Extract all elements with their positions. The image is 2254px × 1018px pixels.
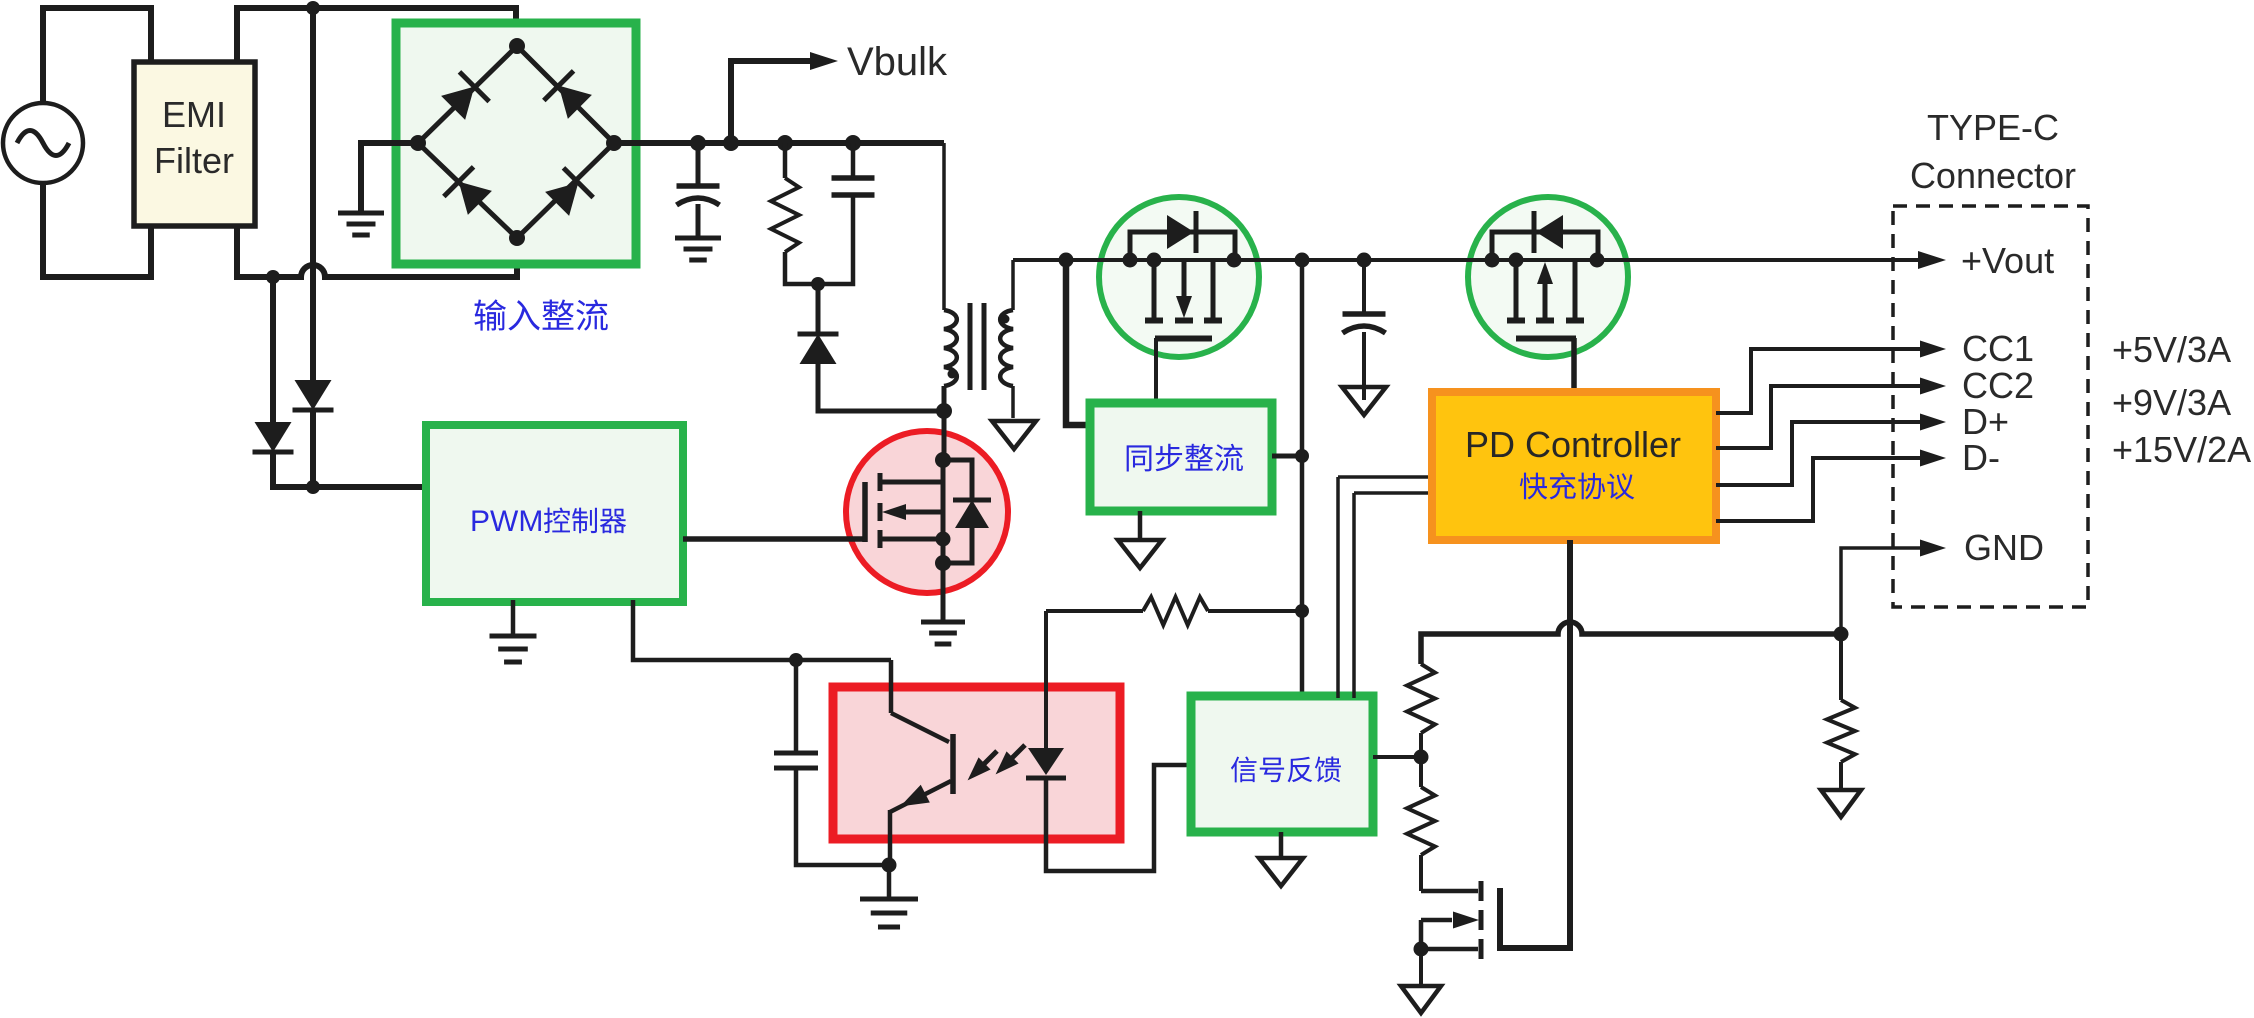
svg-text:+5V/3A: +5V/3A: [2112, 329, 2231, 370]
svg-text:Filter: Filter: [154, 140, 234, 181]
svg-text:+9V/3A: +9V/3A: [2112, 382, 2231, 423]
svg-text:EMI: EMI: [162, 94, 226, 135]
svg-text:PD Controller: PD Controller: [1465, 424, 1681, 465]
svg-text:GND: GND: [1964, 527, 2044, 568]
svg-text:D-: D-: [1962, 437, 2000, 478]
svg-text:TYPE-C: TYPE-C: [1927, 107, 2059, 148]
svg-text:Connector: Connector: [1910, 155, 2076, 196]
svg-text:D+: D+: [1962, 401, 2009, 442]
svg-text:+15V/2A: +15V/2A: [2112, 429, 2251, 470]
svg-text:PWM: PWM: [470, 505, 543, 538]
svg-text:Vbulk: Vbulk: [847, 40, 948, 84]
svg-text:CC1: CC1: [1962, 328, 2034, 369]
svg-text:+Vout: +Vout: [1961, 240, 2054, 281]
svg-text:CC2: CC2: [1962, 365, 2034, 406]
